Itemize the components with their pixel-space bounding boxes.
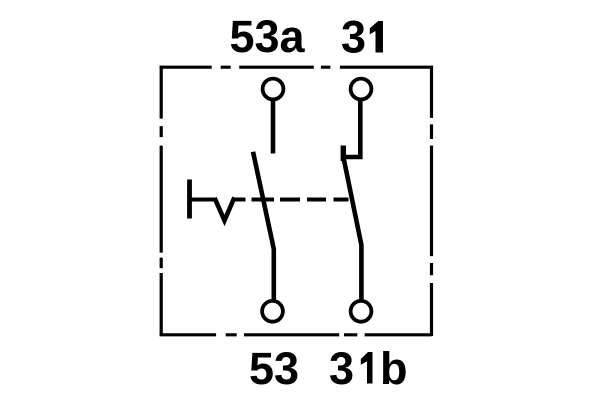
svg-text:53: 53: [249, 343, 299, 394]
linkage line solid start: [190, 198, 216, 202]
terminal 53a circle: [263, 79, 284, 100]
enclosure dash-dot border right edge: [430, 66, 433, 336]
wire from terminal 31 with hook: [343, 101, 361, 157]
linkage dash 5: [334, 198, 349, 202]
svg-text:53a: 53a: [229, 11, 305, 62]
right switch blade: [344, 160, 361, 300]
linkage dash 4: [307, 198, 326, 202]
label 31 digit 1: [370, 21, 383, 53]
linkage dash 2: [252, 198, 275, 202]
svg-text:3: 3: [329, 343, 354, 394]
enclosure dash-dot border top edge: [160, 66, 432, 69]
enclosure dash-dot border left edge: [160, 66, 163, 336]
actuator bar: [187, 180, 192, 219]
contact tick: [341, 146, 346, 162]
terminal 31b circle: [351, 301, 372, 322]
linkage dash 3: [280, 198, 300, 202]
label 31b digit 1: [361, 352, 373, 384]
svg-text:3: 3: [341, 12, 366, 63]
enclosure dash-dot border bottom edge: [160, 333, 432, 336]
left switch blade: [254, 154, 274, 300]
terminal 53 circle: [262, 301, 283, 322]
terminal 31 circle: [351, 79, 372, 100]
detent v notch: [216, 200, 234, 221]
wire from terminal 53a: [271, 101, 276, 154]
svg-text:b: b: [380, 343, 408, 394]
linkage dash 1: [234, 198, 246, 202]
